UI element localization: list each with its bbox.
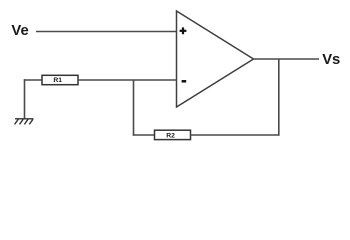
op-amp plus input marker (180, 27, 187, 34)
wire output (254, 58, 320, 60)
svg-text:R1: R1 (53, 77, 62, 84)
op-amp U1 (177, 11, 254, 107)
svg-text:Ve: Ve (11, 23, 28, 39)
wire R1 to inverting input (78, 79, 177, 81)
op-amp minus input marker (182, 80, 187, 83)
wire feedback riser to output (278, 59, 280, 136)
wire ground drop (24, 79, 26, 119)
svg-text:Vs: Vs (322, 52, 340, 68)
wire Ve to non-inverting input (36, 31, 177, 33)
ground (15, 119, 34, 125)
wire ground corner to R1 (24, 79, 42, 81)
wire feedback bottom right (191, 134, 280, 136)
wire feedback bottom left (133, 134, 155, 136)
resistor R2 (155, 130, 191, 139)
wire feedback drop from inverting input (133, 80, 135, 136)
svg-text:R2: R2 (166, 132, 175, 139)
resistor R1 (42, 75, 78, 84)
